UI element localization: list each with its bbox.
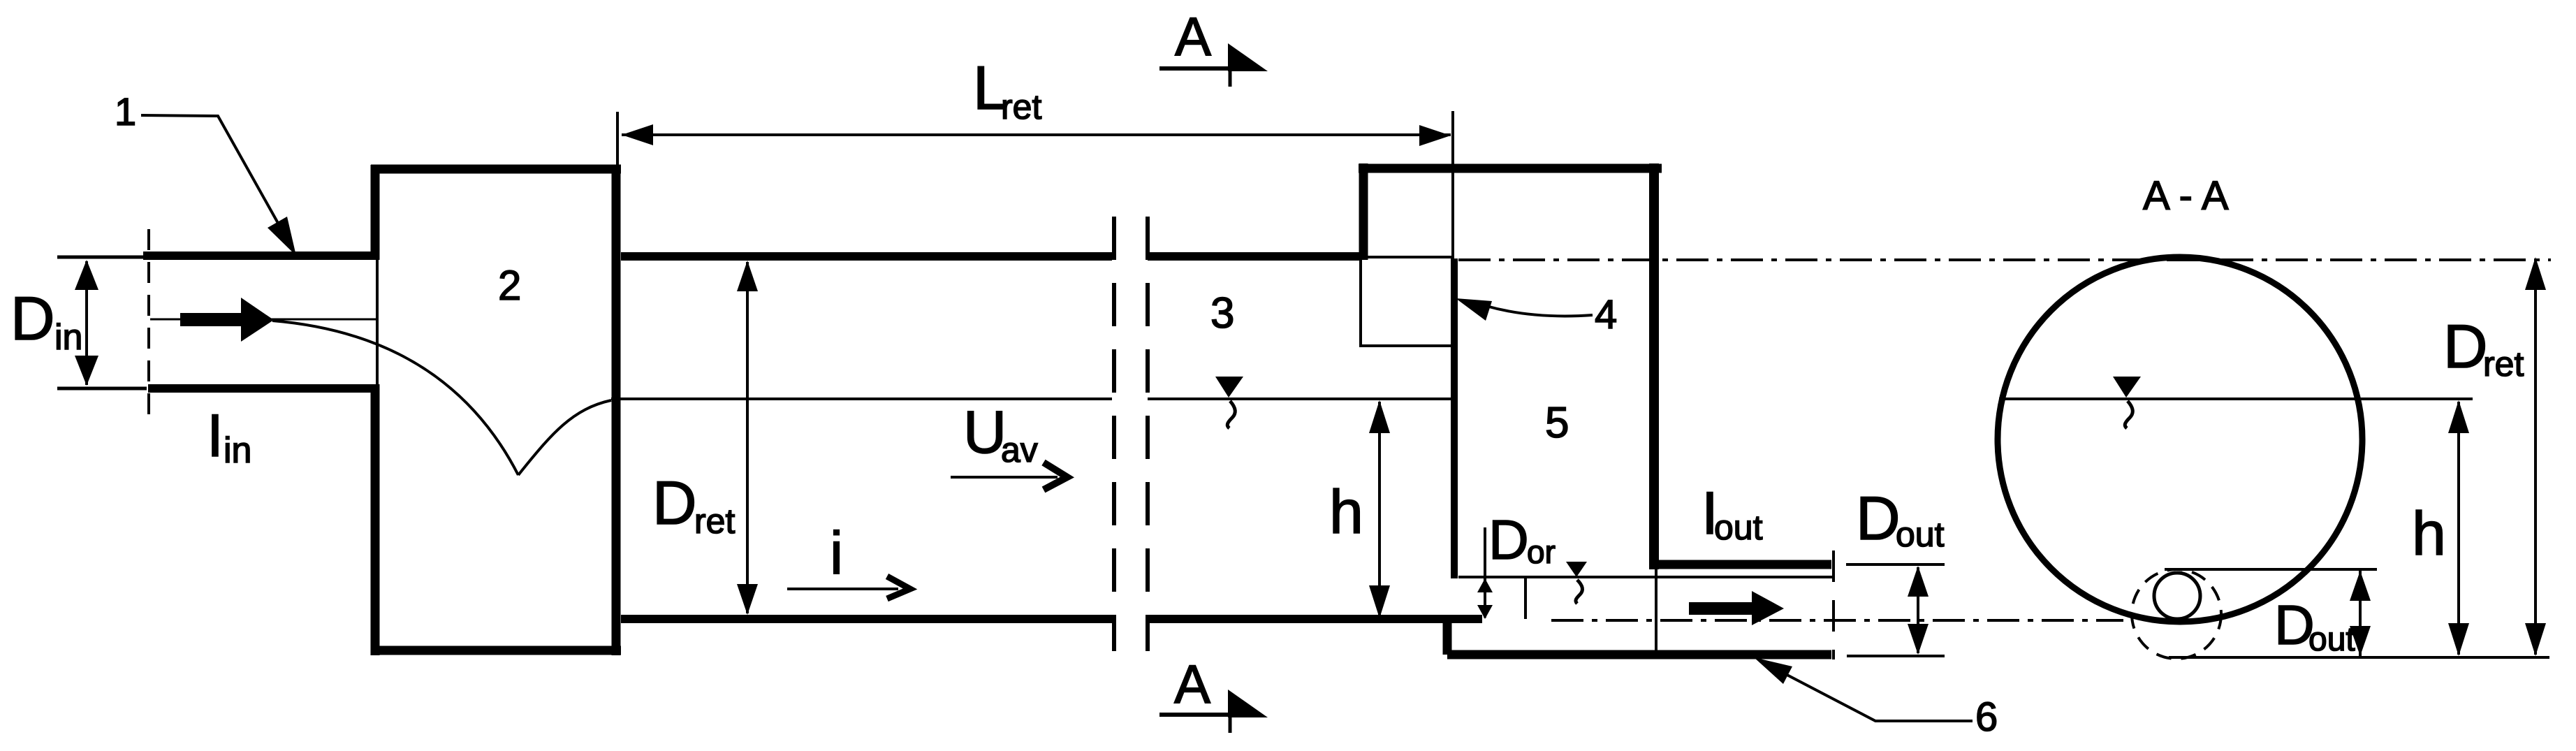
svg-text:out: out	[1714, 508, 1763, 547]
orifice right edge	[1524, 577, 1527, 619]
L_ret left extension line	[616, 112, 619, 166]
floor step vertical	[1443, 615, 1452, 655]
D_out top extension (section)	[2165, 568, 2377, 571]
orifice plate 4 (thin square)	[1361, 257, 1453, 346]
outlet pipe section circle	[2154, 573, 2200, 619]
waterfall curve rising branch	[518, 400, 611, 475]
svg-text:1: 1	[115, 89, 136, 133]
svg-text:h: h	[2412, 499, 2446, 568]
water surface line right of break	[1148, 398, 1451, 400]
centerline extension of pipe crown (dash-dot)	[1458, 258, 2551, 261]
L_ret right extension line	[1451, 111, 1454, 257]
h dimension (plan)	[1369, 400, 1390, 618]
inlet pipe centerline	[150, 319, 376, 321]
svg-text:A - A: A - A	[2143, 173, 2229, 219]
section mark A top	[1159, 6, 1268, 87]
svg-text:out: out	[1896, 515, 1945, 554]
L_ret dimension line	[622, 124, 1451, 146]
inlet chamber 2 left wall thin (pipe opening)	[376, 260, 379, 384]
svg-text:D: D	[1856, 483, 1901, 553]
svg-text:D: D	[2443, 312, 2488, 381]
water surface line left of break	[611, 398, 1112, 400]
outlet pipe outer dashed circle	[2132, 569, 2221, 659]
svg-text:U: U	[963, 399, 1007, 466]
inlet flow arrow	[180, 298, 274, 342]
outlet pipe centerline (dash-dot)	[1551, 619, 2123, 622]
D_ret dimension (plan)	[737, 261, 758, 615]
svg-text:in: in	[54, 317, 82, 358]
inlet pipe top wall	[143, 251, 376, 260]
pipe break line 1	[1112, 217, 1116, 651]
svg-text:ret: ret	[2483, 344, 2524, 384]
svg-text:D: D	[652, 468, 697, 537]
D_out dimension (section)	[2350, 571, 2371, 656]
retention pipe bottom wall right of break	[1148, 615, 1482, 623]
svg-text:in: in	[224, 430, 251, 471]
svg-text:5: 5	[1545, 399, 1569, 447]
svg-text:2: 2	[498, 262, 521, 309]
inlet chamber 2 left wall lower	[371, 384, 380, 655]
svg-text:4: 4	[1595, 292, 1617, 337]
D_ret dimension (section)	[2525, 257, 2546, 656]
inlet pipe dashed end line	[147, 229, 150, 418]
leader line for label 1	[141, 115, 296, 256]
section mark A bottom	[1159, 653, 1268, 733]
svg-text:h: h	[1329, 477, 1363, 546]
svg-text:i: i	[830, 520, 843, 587]
retention pipe top wall left of break	[621, 252, 1112, 261]
svg-text:or: or	[1527, 534, 1556, 570]
outlet chamber left wall lower	[1451, 258, 1458, 578]
inlet chamber 2 top wall	[371, 165, 621, 174]
svg-text:3: 3	[1210, 289, 1234, 337]
retention pipe top wall right of break	[1148, 252, 1359, 261]
svg-text:A: A	[1175, 6, 1211, 67]
svg-text:D: D	[1488, 509, 1529, 571]
i slope arrow	[787, 576, 910, 599]
D_in bottom extension line	[57, 387, 147, 391]
U_av arrow	[951, 462, 1067, 490]
D_out dimension (plan)	[1846, 564, 1945, 656]
inlet pipe bottom wall	[148, 384, 376, 393]
water level mark on retention pipe	[1215, 377, 1243, 428]
D_or dimension	[1477, 527, 1493, 619]
waterfall curve in chamber 2	[272, 321, 518, 475]
svg-text:av: av	[1001, 430, 1038, 469]
ground line (section)	[2169, 656, 2549, 659]
D_in dimension	[75, 260, 98, 386]
svg-text:6: 6	[1975, 694, 1998, 740]
inlet chamber 2 right wall	[612, 165, 621, 655]
retention pipe bottom wall left of break	[621, 615, 1112, 623]
svg-text:I: I	[207, 402, 224, 469]
outlet pipe floor	[1447, 650, 1831, 659]
retention pipe section circle	[1998, 257, 2362, 622]
outlet chamber left wall upper	[1359, 163, 1368, 260]
svg-text:A: A	[1174, 653, 1210, 715]
svg-text:ret: ret	[1001, 87, 1041, 126]
svg-text:D: D	[10, 284, 55, 353]
water level mark at orifice	[1566, 562, 1587, 604]
inlet chamber 2 bottom wall	[371, 646, 621, 655]
water level mark (section)	[2113, 377, 2141, 428]
D_in top extension line	[57, 256, 143, 259]
chamber floor thin line	[1458, 576, 1833, 578]
wall edge behind outlet pipe	[1655, 569, 1657, 650]
h dimension (section)	[2448, 400, 2469, 656]
leader line for label 4	[1456, 298, 1593, 321]
outlet pipe top wall	[1654, 560, 1831, 569]
inlet chamber 2 left wall upper	[371, 165, 380, 260]
pipe break line 2	[1146, 217, 1150, 651]
svg-text:out: out	[2308, 621, 2355, 658]
outlet pipe end break (dashed)	[1832, 551, 1835, 659]
outlet chamber right wall	[1649, 163, 1659, 569]
svg-text:ret: ret	[694, 502, 735, 541]
outlet flow arrow	[1689, 591, 1784, 625]
leader line for label 6	[1754, 657, 1973, 721]
water surface line (section)	[1999, 398, 2473, 400]
outlet chamber top wall	[1359, 164, 1662, 173]
